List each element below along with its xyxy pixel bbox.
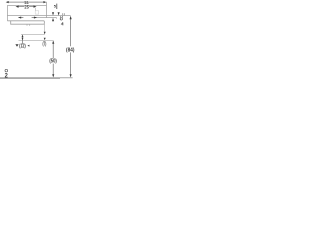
svg-text:(84): (84)	[66, 48, 74, 54]
svg-text:(12): (12)	[19, 43, 26, 49]
svg-text:25: 25	[24, 4, 29, 10]
svg-text:(7): (7)	[42, 42, 46, 48]
svg-text:2: 2	[5, 72, 9, 79]
svg-text:5: 5	[54, 3, 57, 8]
svg-text:(50): (50)	[49, 58, 57, 64]
